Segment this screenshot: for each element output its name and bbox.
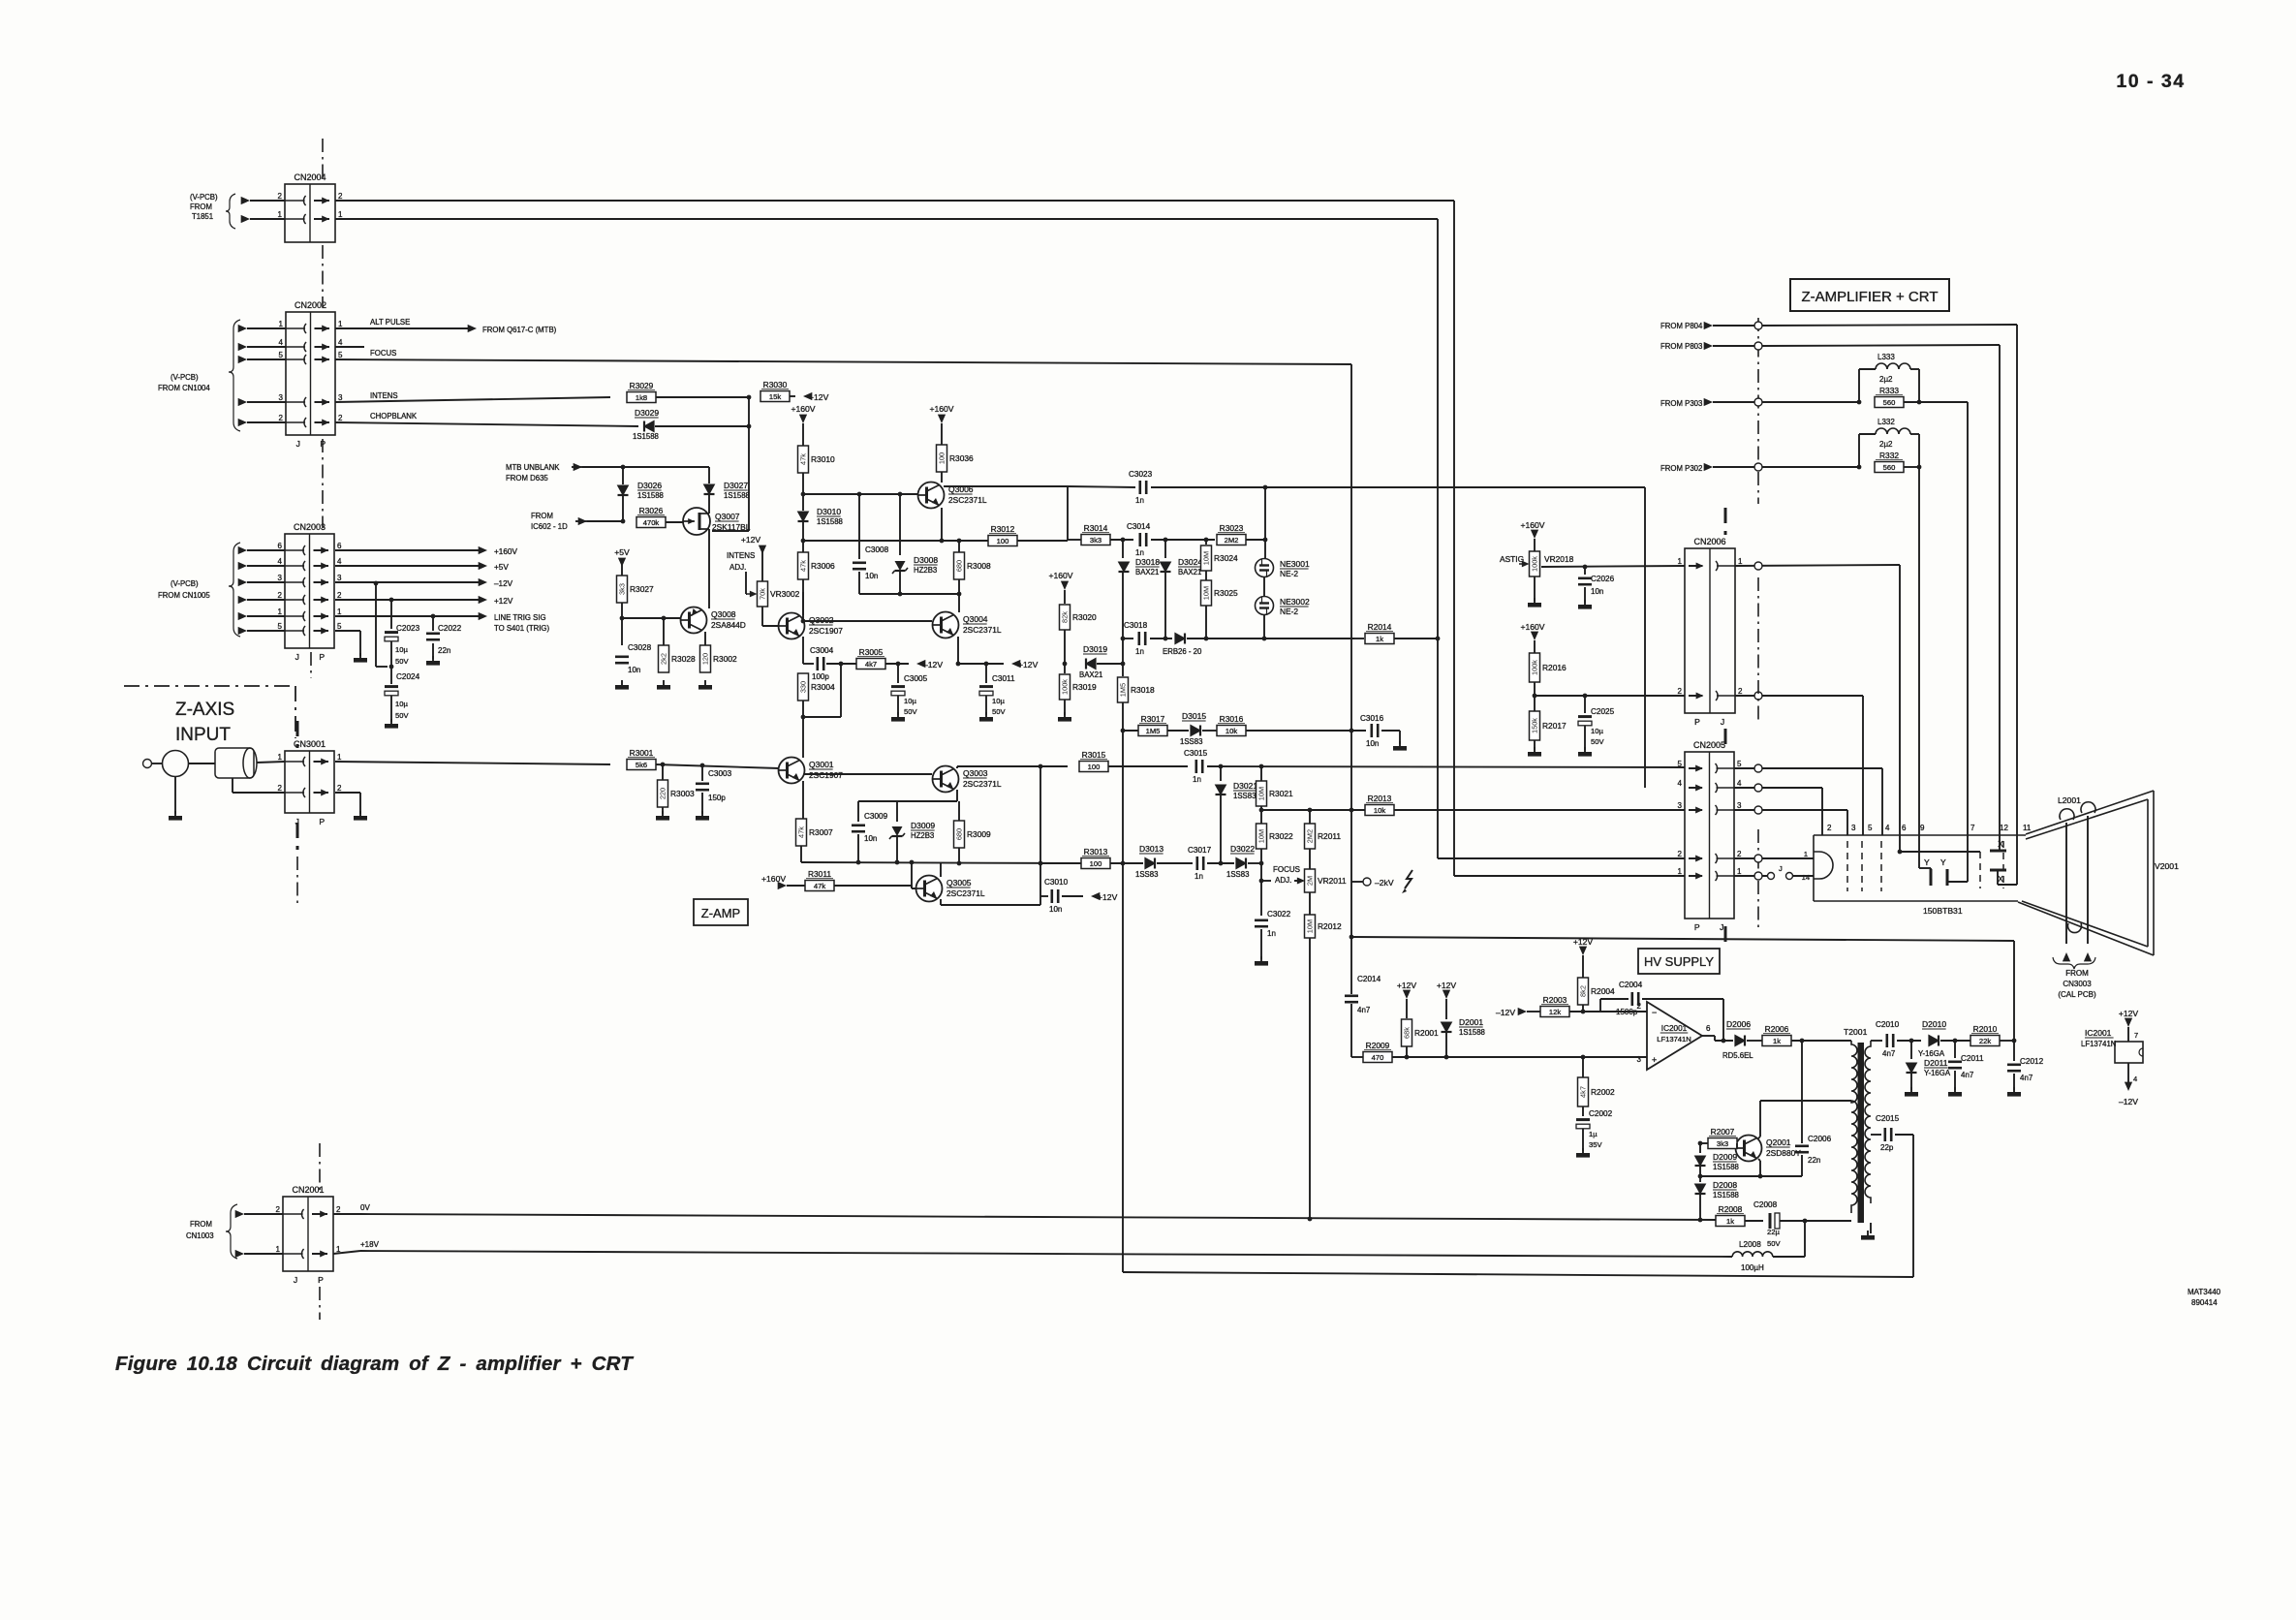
junction: [1722, 1039, 1726, 1044]
svg-text:D3008: D3008: [914, 555, 938, 565]
svg-text:1500p: 1500p: [1616, 1008, 1638, 1016]
svg-text:R3030: R3030: [763, 380, 788, 389]
svg-text:2SC2371L: 2SC2371L: [963, 625, 1002, 635]
svg-text:68k: 68k: [1403, 1027, 1412, 1039]
wire: [1918, 467, 1920, 868]
svg-text:R2011: R2011: [1318, 831, 1341, 841]
svg-text:1n: 1n: [1193, 775, 1201, 784]
svg-text:R3007: R3007: [809, 827, 833, 837]
svg-text:4: 4: [279, 338, 284, 347]
svg-text:ASTIG: ASTIG: [1500, 554, 1524, 564]
svg-text:+12V: +12V: [1573, 937, 1594, 947]
svg-text:R2003: R2003: [1543, 995, 1567, 1005]
junction: [620, 616, 625, 621]
connector CN3001: [285, 751, 334, 813]
svg-text:CN2005: CN2005: [1693, 740, 1725, 750]
svg-text:1: 1: [1738, 557, 1743, 566]
svg-text:4k7: 4k7: [1579, 1086, 1588, 1098]
svg-text:INTENS: INTENS: [727, 551, 755, 560]
svg-text:10k: 10k: [1374, 806, 1385, 815]
svg-text:D2009: D2009: [1713, 1152, 1737, 1162]
svg-text:1: 1: [338, 320, 343, 328]
wire: [1910, 1074, 1912, 1090]
ground: [1534, 747, 1536, 752]
svg-text:1n: 1n: [1195, 872, 1203, 881]
svg-text:C2014: C2014: [1357, 975, 1381, 983]
svg-text:47k: 47k: [799, 453, 808, 465]
svg-text:MTB UNBLANK: MTB UNBLANK: [506, 463, 560, 472]
svg-text:FROM P804: FROM P804: [1660, 322, 1703, 330]
svg-text:BAX21: BAX21: [1178, 568, 1201, 576]
wire: [1097, 663, 1123, 665]
wire: [1167, 730, 1189, 732]
ground: [897, 712, 899, 717]
wire: [582, 466, 709, 468]
wire: [247, 327, 286, 329]
wire: [1534, 682, 1536, 711]
junction: [431, 614, 436, 619]
net -2kV testpoint: [1351, 881, 1363, 883]
svg-text:R2007: R2007: [1711, 1127, 1735, 1137]
wire feedback row: [1351, 937, 2014, 941]
svg-text:D3009: D3009: [911, 821, 935, 830]
svg-text:1k8: 1k8: [636, 393, 647, 402]
wire: [1713, 345, 1754, 347]
wire: [587, 520, 624, 522]
svg-text:10µ: 10µ: [904, 697, 916, 705]
connector CN2002: [286, 312, 335, 435]
wire: [1734, 787, 1822, 789]
resistor R3028: [659, 645, 669, 672]
svg-text:2: 2: [1637, 1002, 1642, 1011]
svg-text:Y-16GA: Y-16GA: [1918, 1049, 1945, 1058]
svg-text:1n: 1n: [1135, 548, 1144, 557]
wire: [1967, 402, 1969, 853]
svg-text:+160V: +160V: [761, 874, 786, 884]
svg-text:50V: 50V: [395, 711, 409, 720]
svg-text:R3025: R3025: [1214, 588, 1238, 598]
junction: [1308, 1217, 1313, 1222]
junction: [1121, 662, 1126, 667]
svg-text:R2001: R2001: [1414, 1028, 1439, 1038]
wire: [1062, 895, 1083, 897]
junction: [1263, 485, 1268, 490]
diode D2009: [1695, 1156, 1706, 1166]
resistor R3003: [658, 780, 668, 807]
resistor R2012: [1305, 915, 1316, 938]
svg-text:FROM P302: FROM P302: [1660, 464, 1702, 473]
svg-text:C2025: C2025: [1591, 707, 1615, 716]
svg-text:22n: 22n: [438, 646, 450, 655]
wire: [704, 632, 706, 645]
svg-text:100: 100: [1090, 859, 1102, 868]
svg-text:X: X: [1998, 839, 2003, 849]
wire R3013 row: [1040, 862, 1082, 864]
svg-text:C3018: C3018: [1124, 621, 1148, 630]
wire: [1897, 1040, 1921, 1042]
wire: [1734, 809, 1847, 811]
svg-text:+12V: +12V: [1437, 981, 1457, 990]
junction: [621, 519, 626, 524]
wire: [1527, 1011, 1540, 1012]
junction: [1350, 935, 1354, 940]
wire pin4 stub: [335, 346, 364, 348]
wire: [1157, 862, 1193, 864]
wire: [701, 793, 703, 814]
svg-text:3k3: 3k3: [1090, 536, 1101, 545]
dash-dot circle: [1754, 562, 1762, 570]
svg-text:VR3002: VR3002: [770, 589, 800, 599]
svg-text:1: 1: [1804, 850, 1808, 858]
wire pin5: [335, 630, 360, 632]
svg-text:C3004: C3004: [810, 646, 834, 655]
svg-text:C3008: C3008: [865, 545, 889, 554]
svg-text:82k: 82k: [1061, 611, 1070, 623]
wire Q3001-Q3003 row: [804, 773, 932, 775]
net +5V: [335, 565, 480, 567]
svg-text:INTENS: INTENS: [370, 391, 398, 400]
brace: [2053, 957, 2095, 969]
svg-text:1k: 1k: [1376, 635, 1383, 643]
wire: [1064, 700, 1066, 715]
svg-text:R3024: R3024: [1214, 553, 1238, 563]
svg-text:R3027: R3027: [630, 584, 654, 594]
wire: [1713, 401, 1754, 403]
wire: [1735, 695, 1863, 697]
wire: [1758, 1159, 1760, 1161]
transformer primary: [1851, 1041, 1857, 1213]
wire: [1713, 325, 1754, 327]
svg-text:C3023: C3023: [1129, 470, 1153, 479]
svg-text:+12V: +12V: [1397, 981, 1417, 990]
svg-text:5: 5: [337, 622, 342, 631]
svg-text:D3010: D3010: [817, 507, 841, 516]
wire R2016/R2017 row: [1535, 695, 1685, 697]
svg-text:C3028: C3028: [628, 643, 652, 652]
svg-text:+12V: +12V: [741, 535, 761, 545]
transistor Q3008: [681, 607, 707, 634]
svg-text:Z-AMPLIFIER + CRT: Z-AMPLIFIER + CRT: [1802, 289, 1939, 305]
wire: [745, 572, 747, 594]
junction: [747, 424, 752, 429]
wire: [1246, 730, 1366, 732]
junction: [1800, 1039, 1805, 1044]
svg-text:FROM: FROM: [531, 512, 553, 520]
svg-text:+12V: +12V: [2119, 1009, 2139, 1018]
wire: [390, 696, 392, 722]
svg-text:D3029: D3029: [635, 408, 659, 418]
svg-text:1M5: 1M5: [1119, 683, 1128, 697]
potentiometer VR2011: [1305, 869, 1316, 892]
svg-text:4: 4: [1737, 779, 1742, 788]
CRT V2001 outline: [1814, 791, 2154, 955]
junction: [1583, 694, 1588, 699]
svg-text:2SC1907: 2SC1907: [809, 626, 843, 636]
net 0V line: [360, 1214, 1716, 1220]
wire: [897, 696, 899, 715]
svg-text:FOCUS: FOCUS: [370, 349, 396, 358]
svg-text:1k: 1k: [1773, 1037, 1781, 1045]
wire: [802, 522, 804, 552]
resistor R2010: [1970, 1036, 2000, 1046]
svg-text:CN1003: CN1003: [186, 1231, 214, 1240]
svg-text:L2001: L2001: [2058, 795, 2081, 805]
svg-text:D2010: D2010: [1922, 1019, 1946, 1029]
svg-text:V2001: V2001: [2155, 861, 2179, 871]
svg-text:C3005: C3005: [904, 674, 928, 683]
junction: [896, 662, 901, 667]
svg-text:R3016: R3016: [1220, 714, 1244, 724]
wire: [1858, 369, 1860, 402]
wire: [1773, 1256, 1805, 1258]
svg-text:100: 100: [1088, 763, 1101, 771]
svg-text:1S1588: 1S1588: [1713, 1191, 1739, 1199]
transformer secondary: [1865, 1041, 1871, 1203]
svg-text:2M2: 2M2: [1306, 829, 1315, 843]
wire: [1017, 540, 1068, 542]
diode D3009 zener: [896, 801, 898, 822]
svg-text:10µ: 10µ: [992, 697, 1005, 705]
main board dash-dot: [1757, 318, 1759, 504]
svg-text:100k: 100k: [1531, 660, 1539, 675]
wire: [621, 567, 623, 576]
svg-text:–2kV: –2kV: [1375, 878, 1394, 888]
wire: [1067, 486, 1069, 541]
svg-text:8k2: 8k2: [1579, 985, 1588, 997]
connector CN2004: [285, 184, 335, 242]
resistor R3011: [805, 881, 834, 891]
svg-text:Y: Y: [1924, 857, 1930, 867]
wire: [1445, 1033, 1447, 1057]
svg-text:+12V: +12V: [494, 597, 513, 606]
wire Q3001 collector: [802, 717, 804, 758]
svg-text:10n: 10n: [628, 666, 640, 674]
ground: [1910, 1087, 1912, 1092]
capacitor C3005: [897, 664, 899, 683]
wire Q3008 base row: [622, 617, 680, 619]
diode D2011: [1910, 1041, 1912, 1059]
wire: [574, 463, 582, 471]
svg-text:50V: 50V: [1767, 1239, 1781, 1248]
resistor R3024: [1205, 540, 1207, 545]
svg-text:5: 5: [338, 351, 343, 359]
net -12V: [916, 660, 925, 668]
svg-text:3: 3: [278, 574, 283, 582]
wire: [1699, 1167, 1701, 1182]
wire: [1394, 638, 1438, 639]
svg-text:HV SUPPLY: HV SUPPLY: [1644, 954, 1714, 969]
wire: [1858, 434, 1860, 467]
svg-text:2: 2: [278, 784, 283, 793]
resistor R3007: [796, 819, 807, 846]
wire: [188, 763, 215, 764]
svg-text:Z-AXIS: Z-AXIS: [175, 700, 234, 720]
svg-text:+160V: +160V: [494, 547, 517, 556]
brace: [226, 194, 235, 229]
resistor R3001: [627, 760, 656, 770]
svg-text:2: 2: [338, 414, 343, 422]
wire: [1954, 1071, 1956, 1090]
svg-text:1: 1: [1737, 867, 1742, 876]
wire: [1534, 576, 1536, 601]
resistor R3025: [1201, 580, 1212, 606]
svg-text:4n7: 4n7: [1961, 1071, 1974, 1079]
junction: [957, 539, 962, 544]
diode D3018: [1122, 540, 1124, 558]
svg-text:120: 120: [701, 653, 710, 665]
transistor Q3001: [779, 758, 805, 784]
svg-text:CN3003: CN3003: [2063, 980, 2092, 988]
connector CN2005: [1685, 752, 1734, 919]
wire Q3005 emitter: [940, 899, 942, 905]
svg-text:7: 7: [1970, 824, 1975, 832]
svg-text:C2015: C2015: [1876, 1114, 1900, 1123]
svg-text:10µ: 10µ: [1591, 727, 1603, 735]
wire Q3004 emitter: [957, 637, 959, 664]
wire: [1350, 1004, 1352, 1057]
wire R3012 row: [803, 540, 988, 542]
svg-text:+5V: +5V: [614, 547, 630, 557]
resistor R3004: [798, 673, 809, 701]
svg-text:HZ2B3: HZ2B3: [911, 831, 934, 840]
svg-text:R3011: R3011: [808, 869, 831, 879]
connector CN2006: [1685, 548, 1735, 713]
neon lamp NE3002: [1256, 597, 1274, 615]
svg-text:1: 1: [337, 753, 342, 762]
svg-text:5: 5: [1868, 824, 1873, 832]
svg-text:−: −: [1652, 1008, 1657, 1017]
svg-text:50V: 50V: [904, 707, 917, 716]
wire: [2013, 1074, 2015, 1090]
svg-text:R3001: R3001: [630, 748, 654, 758]
potentiometer VR3002: [758, 581, 768, 607]
svg-text:2: 2: [337, 784, 342, 793]
svg-text:2M2: 2M2: [1225, 536, 1239, 545]
svg-text:P: P: [319, 652, 325, 662]
wire: [1406, 1046, 1408, 1057]
svg-text:C2008: C2008: [1753, 1200, 1778, 1209]
junction: [839, 662, 844, 667]
junction: [1219, 861, 1224, 866]
svg-text:–12V: –12V: [923, 660, 943, 670]
svg-text:3: 3: [1678, 801, 1683, 810]
svg-text:NE-2: NE-2: [1280, 607, 1298, 616]
svg-text:Q3008: Q3008: [711, 609, 736, 619]
diode D2008: [1695, 1184, 1706, 1194]
wire: [896, 836, 898, 862]
wire: [1734, 875, 1767, 877]
resistor R3023: [1217, 535, 1246, 545]
wire C2015 row: [1871, 1134, 1881, 1136]
svg-text:1: 1: [278, 607, 283, 616]
svg-text:4: 4: [2133, 1075, 2137, 1083]
lightning: [1405, 870, 1412, 888]
svg-text:Q3003: Q3003: [963, 768, 988, 778]
svg-text:R3036: R3036: [949, 453, 974, 463]
transistor Q3003: [933, 766, 959, 793]
svg-text:+160V: +160V: [929, 404, 953, 414]
wire: [858, 572, 860, 594]
svg-text:ALT PULSE: ALT PULSE: [370, 318, 410, 327]
svg-text:50V: 50V: [992, 707, 1006, 716]
junction: [956, 662, 961, 667]
resistor R2004: [1578, 978, 1589, 1005]
junction: [1121, 729, 1126, 733]
svg-text:10µ: 10µ: [395, 700, 408, 708]
wire: [1904, 466, 1919, 468]
svg-text:C2006: C2006: [1808, 1135, 1832, 1143]
svg-text:2SC2371L: 2SC2371L: [963, 779, 1002, 789]
svg-text:4k7: 4k7: [865, 660, 877, 669]
svg-text:2: 2: [279, 414, 284, 422]
wire to CRT pin6: [1899, 565, 1901, 852]
wire: [1582, 1057, 1584, 1077]
wire: [1122, 702, 1124, 863]
wire: [1438, 857, 1685, 859]
svg-text:D3026: D3026: [637, 481, 662, 490]
junction: [1263, 538, 1268, 543]
ground: [663, 680, 665, 685]
svg-text:R3019: R3019: [1072, 682, 1097, 692]
wire: [575, 520, 587, 522]
wire FOCUS vertical: [1350, 364, 1352, 994]
svg-text:+: +: [1652, 1055, 1657, 1065]
wire: [656, 764, 779, 768]
resistor R3036: [937, 445, 947, 472]
wire: [1454, 875, 1685, 877]
svg-text:1S1588: 1S1588: [637, 491, 664, 500]
svg-text:1: 1: [279, 320, 284, 328]
svg-text:R3002: R3002: [713, 654, 737, 664]
CRT electrode dashes: [1847, 841, 2003, 891]
wire: [1381, 730, 1400, 732]
junction: [1533, 694, 1537, 699]
svg-text:100: 100: [938, 452, 946, 464]
svg-text:J: J: [1720, 922, 1723, 932]
svg-text:10n: 10n: [1049, 905, 1062, 914]
resistor R3009: [954, 821, 965, 848]
resistor R3016: [1217, 726, 1246, 736]
wire: [1699, 1195, 1701, 1220]
wire Q3007 source: [708, 529, 710, 608]
svg-text:2M: 2M: [1306, 876, 1315, 886]
wire: [238, 546, 247, 554]
ground: [174, 811, 176, 816]
wire: [1904, 401, 1968, 403]
capacitor C2011: [1954, 1041, 1956, 1058]
transistor Q3007: [683, 508, 710, 535]
wire: [1260, 766, 1262, 781]
svg-text:35V: 35V: [1589, 1140, 1602, 1149]
svg-text:10M: 10M: [1202, 586, 1211, 600]
svg-text:R3022: R3022: [1269, 831, 1293, 841]
inductor L2001 bottom loop: [2068, 923, 2082, 933]
svg-text:R3029: R3029: [630, 381, 654, 390]
capacitor C2022: [432, 616, 434, 631]
svg-text:47k: 47k: [814, 882, 825, 890]
svg-text:+160V: +160V: [791, 404, 815, 414]
wire: [1584, 726, 1586, 750]
svg-text:MAT3440: MAT3440: [2187, 1288, 2221, 1296]
svg-text:1: 1: [278, 753, 283, 762]
wire: [335, 762, 610, 764]
junction: [1698, 1141, 1703, 1146]
junction: [984, 662, 989, 667]
junction: [1803, 1219, 1808, 1224]
wire R2014 row: [1354, 638, 1364, 639]
CRT base: [1813, 835, 1815, 901]
wire Q3006 base row: [803, 493, 917, 495]
